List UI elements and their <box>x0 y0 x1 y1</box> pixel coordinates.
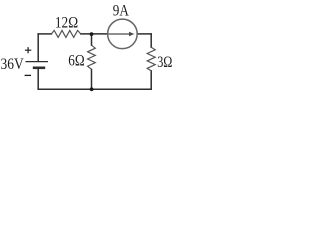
svg-text:3Ω: 3Ω <box>157 54 172 71</box>
svg-text:12Ω: 12Ω <box>55 15 78 32</box>
svg-text:6Ω: 6Ω <box>68 52 84 69</box>
svg-text:36V: 36V <box>1 56 25 73</box>
svg-text:9A: 9A <box>113 2 130 19</box>
